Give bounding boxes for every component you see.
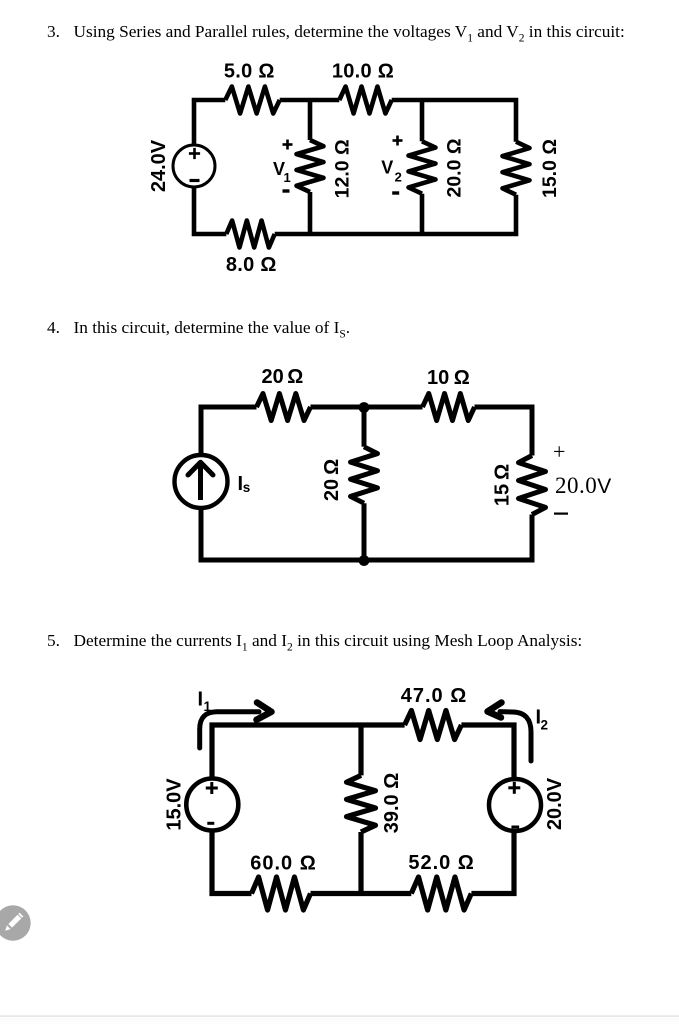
wire top-left corner [194,100,225,145]
resistor 15 ohm right [519,456,546,515]
current source Is [175,455,228,508]
label 10.0 ohm [332,61,394,83]
label I1 [198,689,212,715]
label 47.0 ohm [401,685,468,707]
resistor 10.0 ohm [339,87,391,114]
wire middle branch bottom [362,503,367,560]
label 20.0V with polarity [553,439,612,515]
wire bottom-right corner [275,195,516,234]
wire top-left corner [201,407,257,455]
resistor 20 ohm top [257,394,311,421]
label 20.0 ohm [444,138,466,197]
svg-text:39.0 Ω: 39.0 Ω [381,773,403,834]
wire middle branch top [358,725,363,775]
svg-text:47.0 Ω: 47.0 Ω [401,685,468,707]
svg-text:1: 1 [284,170,291,185]
label I2 [536,707,549,733]
wire V2 branch bottom [420,194,425,234]
label 60.0 ohm [250,853,317,875]
wire V1 branch top [308,100,313,140]
label 20.0V [544,777,566,830]
svg-text:+: + [553,439,565,464]
mesh current arrow I2 [488,703,532,762]
svg-text:2: 2 [541,718,549,733]
wire V2 branch top [420,100,425,141]
label 8.0 ohm [226,254,277,276]
resistor 15.0 ohm [503,142,530,195]
wire middle branch bottom [358,832,363,894]
resistor 60.0 ohm [252,877,311,910]
wire bottom loop [201,508,532,560]
label 24.0V [148,139,170,192]
junction dot bottom node [359,555,370,566]
label 20 ohm middle [321,459,343,501]
resistor 52.0 ohm [411,877,471,910]
wire top middle [311,405,423,410]
label V2 with polarity [381,136,402,195]
label V1 with polarity [273,140,293,193]
label 15.0 ohm [539,139,561,198]
svg-text:20.0V: 20.0V [544,777,566,830]
svg-text:20.0V: 20.0V [555,473,612,498]
wire bottom middle [311,891,412,896]
label 10 ohm [427,367,470,389]
svg-text:24.0V: 24.0V [148,139,170,192]
wire top between 5ohm and 10ohm [280,98,340,103]
wire top-right corner [461,725,514,777]
wire top-right corner [475,407,533,456]
resistor 20.0 ohm [409,141,436,193]
voltage source 24.0V [173,145,215,187]
wire bottom-left corner [212,832,252,894]
wire top-left corner [212,725,405,777]
label 15.0V [164,778,186,831]
label 39.0 ohm [381,773,403,834]
label 5.0 ohm [224,61,275,83]
resistor 47.0 ohm [405,711,462,740]
svg-text:5.0 Ω: 5.0 Ω [224,61,275,83]
svg-text:2: 2 [395,170,402,185]
circuit 4 [175,366,612,566]
wire bottom-right corner [471,832,514,894]
circuit 3 [148,61,561,277]
wire V1 branch bottom [308,192,313,234]
label 52.0 ohm [408,852,475,874]
voltage source 20.0V [489,779,541,831]
edit button (pencil icon) [0,905,31,940]
svg-text:15.0 Ω: 15.0 Ω [539,139,561,198]
junction dot top node [359,402,370,413]
resistor 10 ohm [423,394,475,421]
svg-text:20Ω: 20Ω [262,366,304,388]
resistor 39.0 ohm [347,775,376,832]
svg-text:20.0 Ω: 20.0 Ω [444,138,466,197]
svg-text:12.0 Ω: 12.0 Ω [332,139,354,198]
resistor 8.0 ohm [226,221,274,248]
svg-text:20Ω: 20Ω [321,459,343,501]
wire middle branch top [362,407,367,447]
svg-text:V: V [381,158,393,178]
svg-text:8.0 Ω: 8.0 Ω [226,254,277,276]
resistor 5.0 ohm [225,87,279,114]
svg-text:I: I [198,689,204,711]
wire bottom-left corner [194,187,226,234]
svg-text:52.0 Ω: 52.0 Ω [408,852,475,874]
svg-text:15.0V: 15.0V [164,778,186,831]
svg-text:15Ω: 15Ω [492,464,514,506]
resistor 12.0 ohm [297,140,324,192]
circuit 5 [164,685,567,910]
wire top-right corner [392,100,516,142]
svg-text:60.0 Ω: 60.0 Ω [250,853,317,875]
mesh current arrow I1 [200,703,272,749]
label Is [238,473,251,495]
label 15 ohm [492,464,514,506]
svg-text:10.0 Ω: 10.0 Ω [332,61,394,83]
svg-text:s: s [243,480,251,495]
label 20 ohm top [262,366,304,388]
voltage source 15.0V [186,779,238,831]
svg-text:1: 1 [204,699,212,714]
svg-text:10Ω: 10Ω [427,367,470,389]
resistor 20 ohm middle [351,447,378,503]
label 12.0 ohm [332,139,354,198]
